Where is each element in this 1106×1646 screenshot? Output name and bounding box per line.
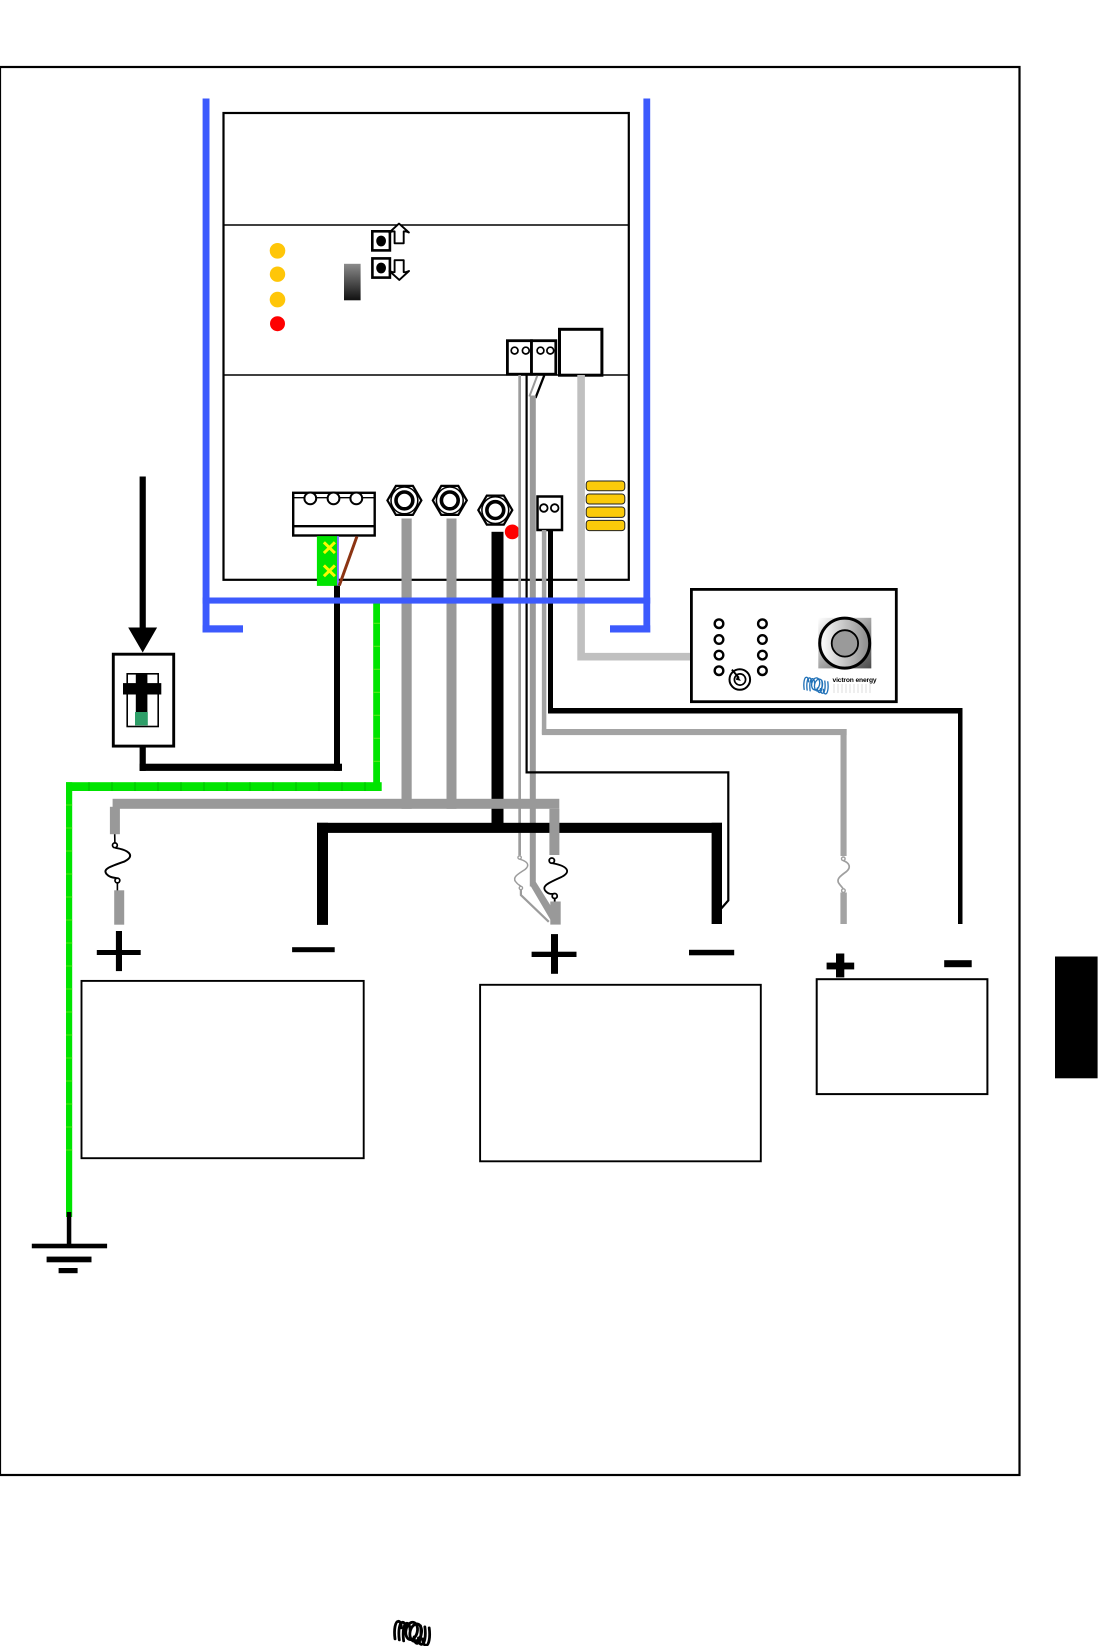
- enclosure outline left foot (blue): [203, 625, 243, 632]
- outer page frame: [0, 67, 1020, 1475]
- AC fuse plug horizontal bar: [123, 683, 161, 694]
- wire: thin gray sense lead (battery 2 plus sense): [518, 375, 521, 855]
- enclosure outline right foot (blue): [610, 625, 650, 632]
- battery 2 minus symbol: [689, 950, 734, 956]
- wire: DC plus output gland 1 (gray): [402, 519, 412, 809]
- fuse F-sense2 wavy element: [515, 859, 528, 886]
- panel LED hole column 1: [715, 619, 724, 675]
- wire: PE green from charger: [373, 601, 380, 792]
- ground symbol lead: [67, 1212, 72, 1245]
- wire: battery 1 plus drop: [110, 807, 120, 834]
- blue bulkhead horizontal line (over wires): [203, 598, 651, 604]
- LED amber 2: [270, 267, 285, 282]
- fuse F1 lead bottom: [116, 883, 118, 891]
- LED amber 1: [270, 243, 286, 259]
- wire: starter battery minus drop (black): [958, 708, 963, 924]
- wire: starter battery minus (black from small connector): [548, 530, 553, 711]
- fuse F2 top terminal: [549, 858, 554, 863]
- wire: PE green vertical to ground: [66, 782, 72, 1217]
- ground symbol bar 3: [59, 1268, 78, 1273]
- wire: PE green horizontal: [66, 782, 382, 791]
- panel LED hole column 2: [758, 619, 767, 675]
- wire: starter battery plus (gray from small connector): [544, 530, 843, 856]
- wire: starter battery plus stub: [840, 893, 846, 925]
- wire: battery 1 minus drop (black): [317, 823, 328, 925]
- wire: starter battery plus drop: [841, 729, 847, 856]
- ground symbol bar 1: [32, 1244, 107, 1249]
- wire: DC minus from gland 3 (black, down to bus): [492, 532, 504, 832]
- fuse F2 bottom terminal: [552, 894, 557, 899]
- battery 2 box: [480, 985, 761, 1162]
- fuse F2 lead bottom: [554, 899, 556, 904]
- wire: black DC minus bus (horizontal): [317, 823, 722, 833]
- LED amber 3: [270, 292, 286, 308]
- fuse F3 bottom terminal: [842, 889, 846, 893]
- panel big knob center: [832, 630, 858, 656]
- fuse F-sense2 bottom terminal: [519, 886, 522, 889]
- fuse F1 bottom terminal: [115, 878, 120, 883]
- battery 1 minus symbol: [292, 947, 335, 952]
- wire: remote panel lead (light gray): [581, 375, 692, 657]
- AC output terminal block: [293, 493, 375, 536]
- fuse F2 wavy element: [544, 863, 567, 894]
- panel big knob square: [818, 618, 871, 669]
- wire: starter battery plus horizontal (thicker): [542, 729, 847, 735]
- PE green tick marks (vertical wires): [66, 623, 380, 1150]
- charger main enclosure box: [224, 113, 629, 580]
- AC input fuse holder box: [113, 654, 173, 746]
- AC fuse body (white): [127, 674, 158, 727]
- cable gland 2: [433, 486, 467, 515]
- wire: thin gray sense diagonal to battery 2 plus: [521, 890, 549, 922]
- wire: gray sense lead diagonal into battery 2 plus: [530, 882, 557, 921]
- enclosure outline left (blue vertical): [203, 99, 210, 633]
- panel victron coil logo (blue): [804, 677, 828, 694]
- push button 1: [372, 231, 390, 250]
- AC fuse element (green): [135, 712, 148, 725]
- DIP fuse bank yellow bar 1: [586, 481, 625, 491]
- up arrow symbol: [389, 224, 409, 244]
- battery 2 plus symbol: [532, 934, 577, 974]
- wire: AC line horizontal (black): [140, 764, 342, 771]
- panel small selector knob: [730, 669, 751, 690]
- wire: DC plus output gland 2 (gray): [447, 519, 457, 809]
- relay box: [560, 329, 602, 375]
- enclosure outline right (blue vertical): [643, 99, 650, 633]
- AC input arrow head: [128, 628, 157, 653]
- fuse F3 wavy element: [838, 861, 849, 889]
- wire: starter battery minus horizontal (black): [548, 708, 963, 714]
- fuse F1 top terminal: [113, 843, 118, 848]
- page tab marker (right margin): [1055, 957, 1098, 1079]
- battery 3 (starter) minus symbol: [944, 960, 972, 967]
- battery 3 (starter) box: [817, 979, 988, 1094]
- DIP fuse bank yellow bar 4: [586, 520, 625, 530]
- rocker switch (gradient): [344, 264, 361, 301]
- LED red alarm: [270, 316, 285, 331]
- cable gland 3: [478, 496, 512, 525]
- AC fuse plug vertical bar: [136, 674, 148, 712]
- svg-text:victron energy: victron energy: [833, 677, 877, 684]
- AC input arrow shaft: [140, 477, 146, 629]
- DIP fuse bank yellow bar 3: [586, 507, 625, 517]
- wire: white sense lead (outlined diagonal from connector B): [529, 376, 537, 397]
- PE green segment ticks: [89, 782, 365, 791]
- fuse F1 lead top: [114, 834, 116, 843]
- sense connector block A (2 holes): [507, 341, 531, 375]
- fuse F3 top terminal: [842, 857, 846, 861]
- charger middle/bottom section divider: [224, 374, 629, 376]
- brown wire (connector latch): [339, 537, 357, 586]
- fuse F-sense2 top terminal: [518, 856, 521, 859]
- battery 1 plus symbol: [97, 931, 141, 971]
- cable gland 1: [387, 486, 421, 515]
- wire: AC line vertical to green connector (black): [334, 586, 340, 771]
- panel watermark stripes: [834, 684, 870, 693]
- wire: fuse box to AC line (black stub): [140, 746, 146, 771]
- charger front/top section divider: [224, 224, 629, 226]
- ground symbol bar 2: [47, 1257, 92, 1263]
- push button 2: [372, 258, 390, 277]
- green AC input connector: [317, 536, 339, 586]
- wire: thin black sense lead (battery 2 minus sense): [527, 375, 729, 911]
- DIP fuse bank yellow bar 2: [586, 494, 625, 504]
- wire: battery 2 plus stub: [550, 902, 560, 925]
- wire: battery 1 plus stub: [114, 890, 124, 924]
- wire: battery 2 plus drop (gray over bus): [549, 809, 559, 855]
- victron coil logo (bottom, black): [395, 1621, 430, 1645]
- panel big knob outer ring: [820, 618, 870, 668]
- fuse F1 wavy element: [105, 848, 130, 879]
- battery 1 box: [82, 981, 364, 1158]
- wire: battery 2 minus drop (black): [712, 823, 722, 924]
- remote control panel box: [691, 589, 896, 701]
- battery 3 (starter) plus symbol: [827, 954, 855, 978]
- small output connector (2 holes): [538, 497, 563, 531]
- wire: gray DC plus bus (horizontal): [113, 799, 560, 809]
- red indicator dot: [505, 525, 520, 540]
- down arrow symbol: [389, 260, 409, 280]
- wire: gray sense lead vertical (to battery 2 plus): [530, 396, 536, 887]
- sense connector block B (2 holes): [532, 341, 556, 375]
